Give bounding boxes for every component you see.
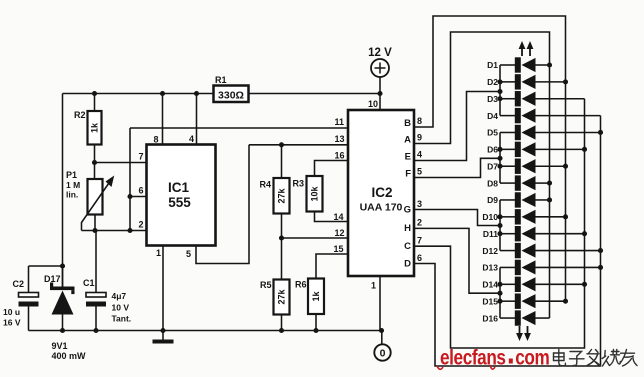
wire IC1 pin2 / trigger node <box>82 230 147 232</box>
svg-text:D14: D14 <box>482 280 498 290</box>
node junction IC1 pin8 top <box>160 91 165 96</box>
svg-text:11: 11 <box>335 117 345 127</box>
resistor R2 1k <box>74 94 102 163</box>
LED light arrows bottom <box>516 326 531 341</box>
watermark chinese text dian <box>554 350 566 366</box>
pin letter A <box>404 135 411 146</box>
LED D8 <box>487 175 552 190</box>
svg-text:D8: D8 <box>487 178 498 188</box>
op-amp IC2 UAA170 LED driver <box>348 110 414 276</box>
svg-text:6: 6 <box>139 186 144 196</box>
LED D7 <box>487 159 568 174</box>
wire top supply rail <box>63 93 381 95</box>
svg-text:R4: R4 <box>260 180 272 190</box>
wire IC2 pin9 A anode bus <box>414 32 550 318</box>
pin letter G <box>404 205 411 216</box>
wire IC1 pin1 to ground <box>156 246 163 331</box>
svg-text:2: 2 <box>139 220 144 230</box>
wire IC2 pin12 Umin ref <box>282 228 349 238</box>
wire cathode group D13-D16 <box>497 267 502 318</box>
wire IC2 pin7 C anode bus <box>414 99 585 348</box>
svg-text:6: 6 <box>417 253 422 263</box>
LED D12 <box>482 243 603 258</box>
LED D2 <box>487 74 568 89</box>
svg-text:D6: D6 <box>487 145 498 155</box>
watermark chinese text fa <box>587 350 601 366</box>
pin label 6 <box>139 186 144 196</box>
svg-text:D2: D2 <box>487 77 498 87</box>
wire IC2 pin5 F cathode group D5-D8 <box>414 158 500 177</box>
svg-text:IC2: IC2 <box>371 185 392 200</box>
wire IC2 pin2 H cathode group D13-D16 <box>414 218 500 294</box>
svg-text:1: 1 <box>156 248 161 258</box>
node junction IC1 pin1 rail <box>160 328 165 333</box>
svg-text:C: C <box>404 241 411 252</box>
zener diode D17 9V1 <box>44 266 75 331</box>
svg-text:7: 7 <box>417 236 422 246</box>
svg-text:D9: D9 <box>487 195 498 205</box>
wire IC1 pin7 <box>95 162 147 164</box>
wire cathode group D5-D8 <box>497 132 502 183</box>
ground symbol <box>153 331 174 344</box>
svg-text:B: B <box>404 118 411 129</box>
LED light arrows top <box>519 41 534 56</box>
wire left border vertical <box>62 94 64 289</box>
LED D4 <box>487 108 600 123</box>
watermark chinese text shao <box>602 350 620 367</box>
wire bottom ground rail <box>29 330 382 332</box>
LED D15 <box>482 293 568 308</box>
svg-text:A: A <box>404 135 411 146</box>
watermark elecfans.com <box>437 346 549 370</box>
watermark chinese text you <box>620 350 637 367</box>
svg-text:D13: D13 <box>482 263 498 273</box>
svg-text:Tant.: Tant. <box>112 314 132 324</box>
LED D16 <box>482 310 549 325</box>
wire IC2 pin11 sweep input <box>130 117 348 128</box>
svg-text:10 u: 10 u <box>3 307 20 317</box>
svg-text:27k: 27k <box>277 289 287 305</box>
capacitor C2 10u electrolytic <box>3 279 39 331</box>
svg-text:15: 15 <box>334 244 344 254</box>
svg-text:1k: 1k <box>90 122 100 133</box>
pin letter C <box>404 241 411 252</box>
node junction R4 top <box>279 142 284 147</box>
svg-text:R1: R1 <box>215 75 227 85</box>
LED D3 <box>487 91 584 106</box>
svg-text:4: 4 <box>189 134 194 144</box>
svg-text:D7: D7 <box>487 161 498 171</box>
pin label 2 <box>139 220 144 230</box>
pin letter E <box>405 152 411 163</box>
svg-text:2: 2 <box>417 218 422 228</box>
svg-text:C1: C1 <box>83 278 95 288</box>
wire threshold-trigger vertical to UAA input <box>129 128 131 231</box>
wire cathode group D9-D12 <box>497 200 502 251</box>
node junction P1 bottom / C1 top <box>92 228 97 233</box>
svg-text:3: 3 <box>417 199 422 209</box>
svg-text:R5: R5 <box>260 280 272 290</box>
node junction C2/D17 top <box>60 263 65 268</box>
node junction D17 bottom <box>60 328 65 333</box>
terminal 0V <box>374 344 390 360</box>
svg-text:9V1: 9V1 <box>52 341 68 351</box>
wire IC1 pin8 <box>154 94 163 145</box>
svg-text:P1: P1 <box>66 170 77 180</box>
node junction R2 top <box>92 91 97 96</box>
LED D9 <box>487 192 552 207</box>
svg-text:4: 4 <box>417 150 422 160</box>
node junction R2/P1/pin7 <box>92 160 97 165</box>
node junction IC1 pin4 top <box>194 91 199 96</box>
svg-text:com: com <box>515 346 549 370</box>
label 9V1 400mW <box>52 341 87 361</box>
svg-text:R6: R6 <box>295 280 307 290</box>
wire IC2 pin10 supply <box>368 94 380 111</box>
svg-text:330Ω: 330Ω <box>218 89 244 101</box>
svg-text:D12: D12 <box>482 246 498 256</box>
LED D1 <box>487 57 552 72</box>
node junction 0V terminal <box>379 328 384 333</box>
wire C2 top link <box>29 266 63 293</box>
svg-text:lin.: lin. <box>66 190 78 200</box>
svg-text:16 V: 16 V <box>3 318 21 328</box>
svg-text:16: 16 <box>335 151 345 161</box>
svg-text:1k: 1k <box>311 291 321 302</box>
resistor R1 330ohm <box>214 75 249 102</box>
pin letter D <box>404 259 411 270</box>
resistor R3 10k <box>293 176 323 212</box>
svg-text:D10: D10 <box>482 212 498 222</box>
svg-text:C2: C2 <box>13 279 25 289</box>
svg-text:elecfans: elecfans <box>440 346 506 370</box>
svg-text:27k: 27k <box>277 188 287 204</box>
svg-text:R2: R2 <box>74 110 86 120</box>
svg-text:10 V: 10 V <box>112 303 130 313</box>
svg-text:0: 0 <box>380 348 386 360</box>
svg-text:D4: D4 <box>487 111 498 121</box>
svg-text:R3: R3 <box>293 179 305 189</box>
pin label 7 <box>139 152 144 162</box>
svg-text:D11: D11 <box>483 229 498 239</box>
node junction C1 bottom <box>93 328 98 333</box>
node junction trigger-threshold link <box>127 228 132 233</box>
svg-text:G: G <box>404 205 411 216</box>
svg-text:9: 9 <box>417 133 422 143</box>
svg-text:12 V: 12 V <box>368 47 392 59</box>
node junction 12V <box>377 91 382 96</box>
resistor R4 27k <box>260 145 290 238</box>
svg-text:5: 5 <box>186 249 191 259</box>
svg-text:D15: D15 <box>482 296 498 306</box>
svg-text:14: 14 <box>334 212 344 222</box>
wire IC2 pin13 Umax ref <box>249 134 348 145</box>
pin letter F <box>405 169 411 180</box>
wire IC2 pin16 <box>315 151 349 177</box>
svg-text:5: 5 <box>417 167 422 177</box>
node junction R6 bottom <box>313 328 318 333</box>
LED D5 <box>487 125 603 140</box>
potentiometer P1 1M <box>66 163 114 231</box>
node junction R4 bottom / R5 top <box>279 235 284 240</box>
wire IC2 pin1 to 0V <box>371 276 382 345</box>
LED D11 <box>483 226 587 241</box>
svg-text:D17: D17 <box>44 274 61 284</box>
svg-text:10k: 10k <box>310 186 320 202</box>
svg-text:1 M: 1 M <box>66 180 80 190</box>
svg-text:10: 10 <box>368 99 378 109</box>
LED D13 <box>482 260 603 275</box>
LED D14 <box>482 277 587 292</box>
resistor R6 1k <box>295 279 324 331</box>
svg-text:D3: D3 <box>487 94 498 104</box>
pin letter B <box>404 118 411 129</box>
wire IC1 pin4 <box>189 94 197 145</box>
supply 12V terminal <box>368 47 392 94</box>
wire IC2 pin8 B anode bus <box>414 16 566 301</box>
wire IC2 pin15 <box>316 244 348 279</box>
op-amp IC1 555 timer <box>147 145 216 246</box>
wire IC1 pin5 link to IC2 pin13 <box>186 145 249 264</box>
capacitor C1 4u7 tantalum <box>83 231 131 331</box>
svg-text:4μ7: 4μ7 <box>112 291 127 301</box>
LED D6 <box>487 142 587 157</box>
svg-text:F: F <box>405 169 411 180</box>
wire IC2 pin14 <box>315 212 349 223</box>
svg-text:400 mW: 400 mW <box>52 351 87 361</box>
svg-text:UAA 170: UAA 170 <box>360 202 403 214</box>
wire IC1 pin6 <box>130 196 147 198</box>
node junction IC1 pin6 <box>127 194 132 199</box>
wire cathode group D1-D4 <box>497 65 502 116</box>
wire IC2 pin4 E cathode group D1-D4 <box>414 92 500 161</box>
svg-text:D5: D5 <box>487 128 498 138</box>
svg-text:7: 7 <box>139 152 144 162</box>
svg-text:D16: D16 <box>482 313 498 323</box>
svg-text:12: 12 <box>335 228 345 238</box>
wire IC2 pin3 G cathode group D9-D12 <box>414 199 500 226</box>
resistor R5 27k <box>260 238 290 331</box>
svg-text:13: 13 <box>335 134 345 144</box>
svg-text:IC1: IC1 <box>168 180 190 195</box>
svg-text:8: 8 <box>417 116 422 126</box>
svg-text:D1: D1 <box>487 60 498 70</box>
svg-text:1: 1 <box>371 281 376 291</box>
pin letter H <box>404 223 411 234</box>
svg-text:H: H <box>404 223 411 234</box>
svg-text:555: 555 <box>168 195 191 210</box>
svg-text:D: D <box>404 259 411 270</box>
svg-text:E: E <box>405 152 411 163</box>
wire IC2 pin6 D anode bus <box>414 116 601 366</box>
node junction R5 bottom <box>279 328 284 333</box>
LED D10 <box>482 209 568 224</box>
watermark chinese text zi <box>570 352 585 366</box>
svg-text:8: 8 <box>154 135 159 145</box>
